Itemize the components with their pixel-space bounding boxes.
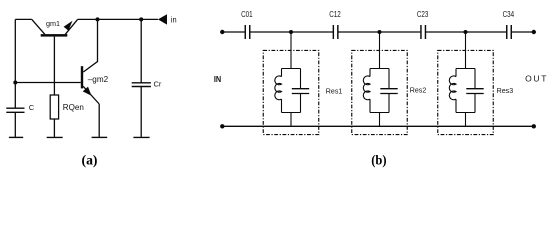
- inductor L1: [275, 69, 301, 113]
- svg-text:OUT: OUT: [525, 74, 546, 84]
- node OUT top terminal: [532, 30, 536, 34]
- wire resonator 1 top lead: [290, 32, 292, 69]
- inductor L2: [363, 69, 389, 113]
- wire top rail segments: [222, 31, 534, 33]
- wire resonator 3 top lead: [465, 32, 467, 69]
- svg-text:Res3: Res3: [497, 86, 514, 95]
- capacitor C12: [333, 25, 338, 39]
- ground C: [9, 136, 23, 138]
- node junction collector: [96, 17, 100, 21]
- svg-text:C01: C01: [241, 10, 253, 19]
- svg-text:(a): (a): [82, 153, 98, 168]
- node junction J1: [289, 30, 293, 34]
- svg-text:in: in: [171, 14, 177, 24]
- node OUT bottom terminal: [532, 124, 536, 128]
- ground RQen: [47, 136, 63, 138]
- capacitor C34: [507, 25, 512, 39]
- capacitor tank 1: [292, 69, 309, 113]
- svg-text:C12: C12: [329, 10, 341, 19]
- svg-text:Res1: Res1: [326, 86, 343, 95]
- wire -gm2 emitter lead: [98, 104, 100, 137]
- node junction J3: [464, 30, 468, 34]
- wire resonator 1 bottom lead: [290, 113, 292, 127]
- wire top rail: [78, 18, 158, 20]
- svg-text:RQen: RQen: [63, 103, 84, 112]
- resonator box Res1: [263, 50, 319, 134]
- svg-text:Res2: Res2: [410, 86, 427, 95]
- svg-text:C34: C34: [503, 10, 515, 19]
- wire -gm2 collector: [83, 19, 97, 72]
- wire resonator 3 bottom lead: [465, 113, 467, 127]
- wire mid horizontal: [15, 82, 81, 84]
- wire left rail: [14, 19, 16, 108]
- wire resonator 2 bottom lead: [379, 113, 381, 127]
- svg-text:–gm2: –gm2: [88, 75, 109, 84]
- capacitor tank 2: [380, 69, 397, 113]
- svg-text:Cr: Cr: [154, 79, 162, 88]
- capacitor C01: [245, 25, 250, 39]
- capacitor Cr: [132, 19, 151, 136]
- node IN bottom terminal: [220, 124, 224, 128]
- wire gm1 base lead: [53, 37, 55, 95]
- inductor L3: [449, 69, 475, 113]
- wire top-left horizontal: [15, 18, 32, 20]
- capacitor C: [6, 108, 24, 137]
- svg-text:C23: C23: [417, 10, 429, 19]
- ground -gm2 emitter: [92, 136, 108, 138]
- capacitor tank 3: [466, 69, 483, 113]
- transistor gm1: [32, 19, 78, 36]
- node junction Cr: [139, 17, 143, 21]
- node junction left rail: [13, 81, 17, 85]
- wire bottom rail: [222, 125, 534, 127]
- resistor RQen: [50, 95, 58, 137]
- capacitor C23: [421, 25, 426, 39]
- ground Cr: [133, 136, 149, 138]
- svg-text:(b): (b): [371, 153, 386, 168]
- resonator box Res3: [438, 50, 494, 134]
- transistor -gm2: [81, 66, 99, 104]
- node IN top terminal: [220, 30, 224, 34]
- svg-text:C: C: [29, 103, 35, 112]
- resonator box Res2: [352, 50, 408, 134]
- wire resonator 2 top lead: [379, 32, 381, 69]
- node in terminal arrow: [158, 14, 167, 24]
- svg-text:IN: IN: [214, 75, 222, 84]
- svg-text:gm1: gm1: [46, 19, 60, 28]
- node junction J2: [378, 30, 382, 34]
